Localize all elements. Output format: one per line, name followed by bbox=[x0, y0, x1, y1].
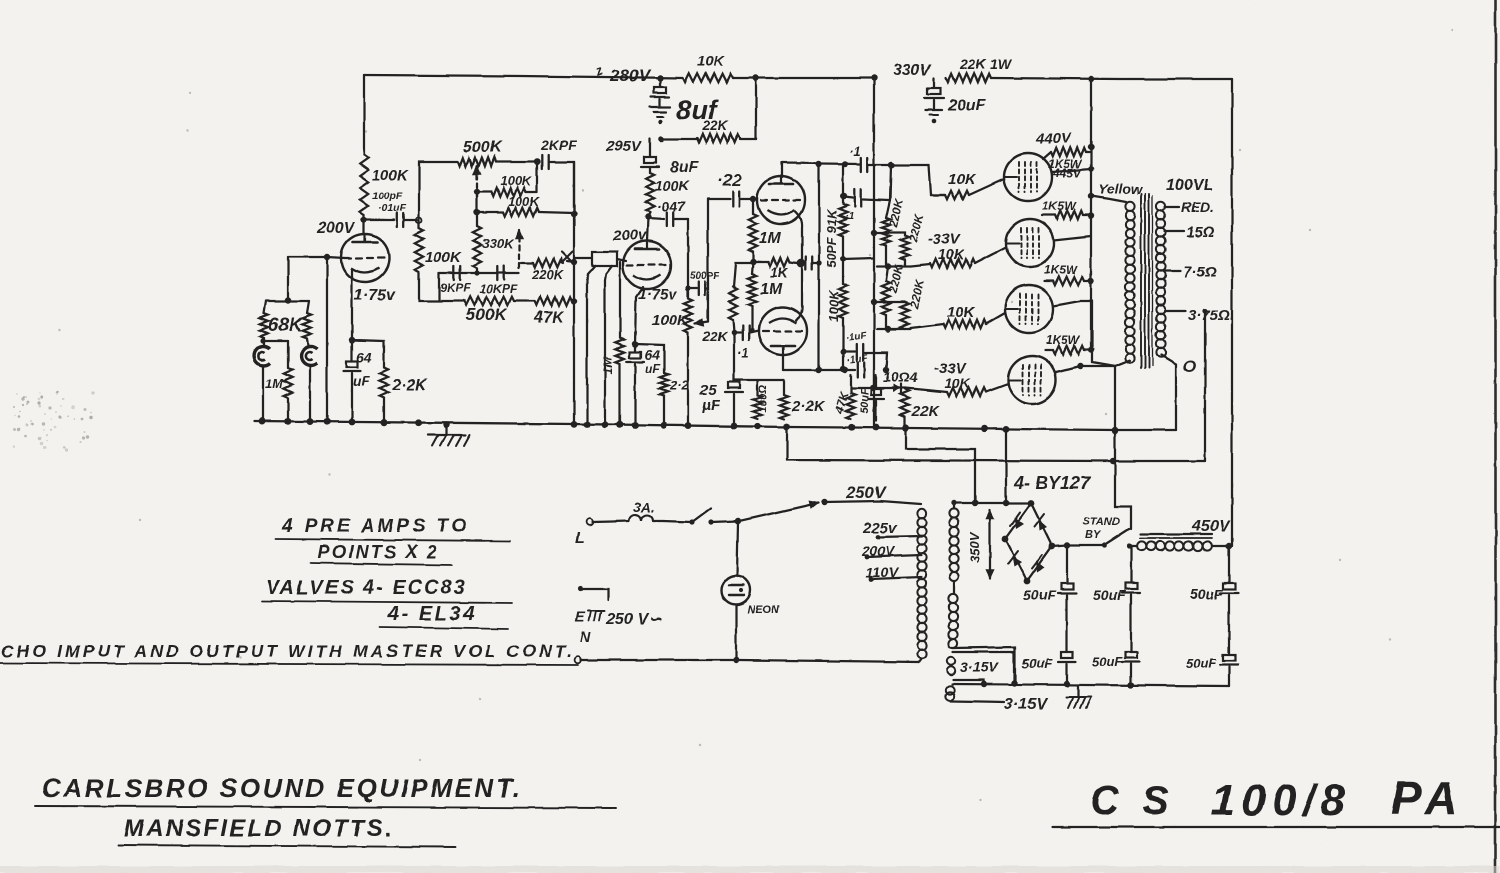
junction rail x384 bbox=[381, 419, 388, 426]
tap 110V bbox=[866, 564, 922, 581]
wire 250V to primary bbox=[824, 501, 921, 504]
wire splitter bottom line bbox=[783, 369, 855, 371]
title underline bbox=[1053, 826, 1500, 828]
junction rail x327 bbox=[324, 418, 331, 425]
pentode V6 bbox=[1008, 356, 1056, 404]
wire 500K lower line bbox=[419, 273, 535, 301]
note points x2 bbox=[311, 542, 452, 565]
wire bridge out bbox=[1052, 545, 1067, 546]
OPT secondary winding bbox=[1156, 202, 1165, 358]
label 450V bbox=[1191, 518, 1231, 535]
wire HT bottom out bbox=[953, 647, 1015, 682]
wire HT top link bbox=[953, 500, 1029, 506]
junction rail x352 bbox=[349, 419, 356, 426]
wire coupling to tone box bbox=[419, 162, 458, 220]
screen rail vertical bbox=[1088, 79, 1094, 353]
node bottom line a bbox=[816, 367, 822, 373]
junction rail x310 bbox=[307, 418, 314, 425]
scan edge line bbox=[1494, 0, 1497, 873]
label .1uF low1 bbox=[845, 330, 868, 344]
resistor 10K grid V3 bbox=[931, 171, 1004, 199]
capacitor 25uF bbox=[699, 333, 743, 424]
wire 220K AB junction bbox=[877, 263, 930, 269]
label 100VL bbox=[1166, 177, 1213, 194]
wire primary bottom to N bbox=[919, 658, 922, 662]
pentode V5 bbox=[1005, 285, 1053, 333]
HT winding lower bbox=[948, 594, 957, 648]
wire 68K top bar bbox=[266, 300, 309, 302]
resistor 330K bbox=[473, 212, 515, 273]
resistor 10K grid V6 bbox=[934, 360, 1008, 396]
node 2KPF bbox=[534, 159, 540, 165]
resistor 22K splitter grid bbox=[702, 263, 753, 344]
arrow 350V bbox=[967, 510, 994, 578]
title PA bbox=[1391, 772, 1464, 824]
resistor 1M splitter upper bbox=[749, 199, 782, 262]
wire 220K feed B bbox=[874, 233, 905, 236]
label 1.75V second bbox=[638, 286, 678, 303]
wire 9KPF box top bbox=[439, 270, 519, 300]
wire jack1 to 1M bbox=[260, 338, 288, 421]
junction rail x635 bbox=[632, 422, 639, 429]
resistor 47K bias bbox=[832, 375, 855, 419]
note valves ecc83 bbox=[262, 577, 512, 603]
wire cathode V1a bbox=[351, 270, 353, 340]
label 200V first bbox=[316, 220, 356, 237]
capacitor .1 coupling low1 bbox=[840, 344, 887, 370]
capacitor 20uF bbox=[925, 78, 987, 123]
label 220K A bbox=[886, 196, 906, 229]
wire X to rail bbox=[567, 261, 574, 262]
resistor 1M V1b gridleak bbox=[601, 262, 624, 424]
ground symbol main bbox=[428, 422, 470, 446]
right edge B+ vertical bbox=[1231, 79, 1233, 546]
wire cathode branch bbox=[352, 340, 384, 368]
fuse 3A bbox=[593, 499, 663, 522]
junction rail x906 bbox=[903, 424, 910, 431]
label 4-BY127 bbox=[1013, 473, 1091, 493]
box lead left bbox=[588, 266, 595, 274]
vertical rail 843 with 91K 100K bbox=[839, 164, 847, 372]
wire PSU drop A bbox=[787, 428, 1113, 461]
wire neutral bbox=[581, 660, 919, 662]
wire HT mid links bbox=[953, 581, 955, 594]
resistor 220K B bbox=[901, 236, 909, 266]
wire bias bar bbox=[734, 379, 784, 381]
resistor 1M input bbox=[265, 341, 292, 421]
wire tap 3.75 bbox=[1165, 307, 1234, 324]
wire plate V1a bbox=[363, 75, 365, 155]
label 280V bbox=[592, 62, 651, 85]
node screen V4 bbox=[1088, 213, 1094, 219]
label 500PF bbox=[690, 271, 720, 282]
resistor 1K5W V3 bbox=[1043, 148, 1091, 180]
node B+ right bbox=[1088, 76, 1094, 82]
terminal L bbox=[575, 519, 593, 547]
triode V2a bbox=[757, 176, 805, 224]
capacitor .1 coupling top bbox=[861, 158, 894, 172]
wire plate V2b bbox=[782, 355, 784, 370]
heater winding 2 bbox=[946, 686, 954, 700]
resistor 220K A bbox=[882, 218, 890, 266]
resistor 100R bbox=[753, 380, 769, 419]
wire grid V1a bbox=[288, 257, 345, 258]
node 440V bbox=[1088, 144, 1094, 150]
label 200V second bbox=[612, 227, 648, 244]
capacitor 50uF 2 bbox=[1093, 546, 1140, 652]
resistor 100K plate-load V1a bbox=[360, 155, 409, 215]
terminal N bbox=[575, 657, 582, 664]
wire PSU drop B bbox=[906, 428, 975, 503]
OPT primary winding bbox=[1125, 202, 1134, 362]
junction rail x985 bbox=[982, 425, 989, 432]
wire jack ground vertical bbox=[326, 257, 328, 420]
resistor 2.2K 1W bbox=[946, 56, 1012, 82]
resistor 10K grid V5 bbox=[943, 304, 1005, 328]
node bridge out bbox=[1064, 542, 1070, 548]
heater box 3.15V bbox=[953, 652, 1017, 687]
wire B+ drop bbox=[1112, 366, 1131, 529]
ground symbol PSU bbox=[1066, 686, 1091, 708]
wire switch to junction bbox=[711, 521, 738, 522]
switch mains bbox=[663, 508, 714, 525]
junction rail x734 bbox=[731, 423, 738, 430]
vertical rail 819 bbox=[818, 164, 820, 370]
wire cathode V2a bbox=[795, 211, 802, 261]
capacitor .1 coupling mid bbox=[841, 165, 891, 222]
pot wiper arrow upper bbox=[473, 166, 481, 197]
HT winding upper bbox=[949, 509, 958, 581]
wire 500K to 2KPF bbox=[496, 161, 538, 163]
resistor 100K screen bbox=[646, 167, 690, 212]
capacitor 100pF/.01uF bbox=[364, 190, 422, 227]
title CS bbox=[1090, 779, 1175, 823]
junction rail x587 bbox=[584, 421, 591, 428]
PSU ground rail bbox=[952, 681, 1229, 688]
title 100-8 bbox=[1211, 776, 1351, 825]
label 220K C bbox=[886, 262, 906, 295]
wire grid V2b bbox=[749, 328, 754, 333]
wire plate V3 to rail bbox=[1052, 166, 1094, 172]
label 330V bbox=[893, 62, 932, 79]
resistor 1K5W V5 bbox=[1044, 263, 1091, 285]
label .1uF low2 bbox=[846, 353, 869, 367]
resistor 1K tail bbox=[753, 258, 797, 280]
label N bbox=[580, 629, 592, 646]
label Yellow bbox=[1098, 181, 1143, 197]
resistor 2.2K V1b bbox=[660, 373, 690, 424]
capacitor 2KPF bbox=[540, 137, 577, 169]
resistor 500K upper bbox=[458, 139, 503, 166]
wire cathode branch V1b bbox=[635, 344, 664, 373]
label E earth 250V bbox=[575, 609, 662, 628]
wire plate V5 bbox=[1053, 301, 1092, 306]
wire wiper riser bbox=[707, 199, 709, 322]
wire tap step bbox=[1202, 308, 1207, 461]
voltage selector arrow bbox=[739, 501, 818, 521]
wire pot bottom bbox=[687, 333, 689, 424]
junction rail x787 bbox=[784, 423, 791, 430]
wire gridleak left bbox=[587, 274, 588, 424]
node 330V bbox=[871, 75, 877, 81]
tap 200V bbox=[861, 543, 922, 559]
wire tap 7.5 bbox=[1165, 264, 1217, 281]
wire 91K bottom link bbox=[840, 256, 874, 262]
resistor 10K grid V4 bbox=[928, 231, 1006, 267]
label 220K D bbox=[907, 277, 927, 310]
capacitor 8uF second bbox=[641, 157, 700, 176]
wire plate node to tube bbox=[363, 215, 365, 234]
resistor 100K coupling bbox=[415, 220, 462, 272]
resistor 1M splitter lower bbox=[748, 262, 783, 331]
wire splitter low caps bbox=[852, 363, 947, 393]
node grid V1a bbox=[324, 254, 330, 260]
node 1M junction bbox=[750, 259, 756, 265]
capacitor 10KPF bbox=[480, 266, 518, 296]
resistor 22K bias bbox=[901, 389, 941, 428]
label 220K B bbox=[906, 211, 926, 244]
junction rail x574 bbox=[571, 421, 578, 428]
capacitor .22 bbox=[708, 171, 752, 207]
wire NFB long bbox=[1110, 458, 1205, 464]
node top line b bbox=[842, 161, 848, 167]
capacitor 50uF bias bbox=[859, 375, 884, 421]
connector box interstage bbox=[574, 252, 626, 266]
wire plate V4 to rail bbox=[1054, 236, 1091, 240]
node choke out bbox=[1226, 543, 1232, 549]
capacitor 50uF 3 bbox=[1190, 546, 1238, 655]
switch standby bbox=[1067, 516, 1132, 549]
node wiper junction bbox=[474, 189, 480, 195]
junction rail x605 bbox=[602, 421, 609, 428]
wire primary bottom bbox=[1115, 360, 1130, 366]
wire NFB box bottom bbox=[1112, 427, 1176, 433]
junction rail x262 bbox=[259, 418, 266, 425]
jack input 2 bbox=[301, 338, 317, 419]
wire plate V6 bbox=[1056, 363, 1115, 372]
note echo bbox=[0, 641, 578, 665]
neon lamp bbox=[722, 521, 780, 660]
box lead right bbox=[606, 266, 612, 274]
junction rail x620 bbox=[617, 421, 624, 428]
resistor 68K right bbox=[303, 301, 311, 338]
wire PSU drop C bbox=[1005, 429, 1007, 503]
resistor 220K C bbox=[882, 266, 890, 329]
junction rail x419 bbox=[416, 419, 423, 426]
label 8uf bbox=[676, 95, 720, 125]
tap 225V bbox=[862, 520, 922, 539]
node 280V bbox=[657, 75, 663, 81]
junction rail x876 bbox=[873, 424, 880, 431]
node grid V2a bbox=[750, 196, 756, 202]
node plate V1b bbox=[645, 214, 651, 220]
vertical rail 874 bbox=[873, 78, 875, 429]
wire 047 drop bbox=[687, 219, 689, 282]
wire splitter top line bbox=[782, 163, 945, 195]
node 250V bbox=[821, 499, 827, 505]
title mansfield bbox=[118, 815, 456, 847]
label O tap bbox=[1183, 357, 1196, 376]
pentode V3 bbox=[1004, 153, 1052, 201]
wire cathode V1b bbox=[635, 287, 643, 344]
wire plate V1b bbox=[647, 212, 650, 241]
label 1.75V first bbox=[354, 287, 396, 304]
wire tap RED bbox=[1165, 199, 1214, 215]
capacitor 500pF bbox=[685, 282, 708, 295]
OPT core bbox=[1141, 194, 1153, 368]
label 295V bbox=[605, 138, 643, 155]
label 440V bbox=[1035, 130, 1073, 147]
resistor 22K bbox=[697, 117, 740, 142]
capacitor 64uF V1b bbox=[627, 344, 661, 424]
resistor 68K left bbox=[260, 301, 304, 338]
choke filter bbox=[1129, 534, 1228, 551]
resistor 47K bbox=[533, 297, 574, 326]
junction rail x757 bbox=[754, 423, 761, 430]
diode 10D4 bbox=[893, 384, 901, 392]
node rail874 crossing bbox=[871, 230, 877, 236]
title carlsbro bbox=[35, 773, 616, 808]
note valves el34 bbox=[380, 603, 508, 629]
resistor 10K top bbox=[683, 53, 733, 82]
node neutral neon bbox=[733, 657, 739, 663]
node neon bbox=[735, 518, 741, 524]
resistor 220K D bbox=[871, 299, 909, 329]
triode V1a bbox=[341, 234, 389, 282]
node 68K top bbox=[285, 297, 291, 303]
pot wiper arrow lower bbox=[515, 230, 523, 268]
wire 220K CD junction bbox=[877, 324, 943, 332]
wire cathode V2b bbox=[796, 265, 802, 321]
resistor 2.2K splitter bbox=[780, 380, 826, 419]
junction rail x288 bbox=[285, 418, 292, 425]
capacitor 50pF tail bbox=[801, 257, 822, 270]
wire top B+ rail bbox=[364, 75, 1232, 79]
bottom scan band bbox=[0, 866, 1500, 873]
pot wiper arrow volume bbox=[695, 319, 708, 327]
resistor 220K inject bbox=[521, 259, 565, 282]
capacitor 50uF 6 bbox=[1186, 655, 1238, 686]
label 10D4 bbox=[883, 369, 918, 385]
pentode V4 bbox=[1006, 219, 1054, 267]
resistor 1K5W V6 bbox=[1045, 333, 1091, 354]
label 100K rotated bbox=[826, 289, 841, 322]
wire yellow to OPT bbox=[1088, 193, 1126, 202]
node tail bbox=[797, 259, 806, 268]
ground below 8uF bbox=[650, 107, 670, 124]
triode V2b bbox=[759, 307, 807, 355]
capacitor 64uF V1a bbox=[344, 340, 372, 421]
node bottom line b bbox=[842, 367, 848, 373]
label .1 top bbox=[849, 144, 861, 159]
jack input 1 bbox=[254, 338, 270, 366]
capacitor .1 splitter grid bbox=[734, 326, 759, 360]
wire 295V node bbox=[650, 136, 664, 157]
wire HT top bbox=[951, 500, 956, 509]
wire plate V2a bbox=[781, 163, 783, 177]
capacitor 50uF 4 bbox=[1022, 652, 1076, 684]
terminal E bbox=[578, 586, 608, 600]
capacitor 50uF 5 bbox=[1092, 652, 1140, 684]
capacitor .047 bbox=[648, 198, 688, 226]
wire V5 plate drop bbox=[1092, 301, 1115, 366]
node cathode V1a bbox=[349, 337, 355, 343]
node plate V1a bbox=[361, 217, 367, 223]
wire 2KPF to right rail bbox=[549, 162, 574, 214]
wire grid drop bbox=[287, 257, 289, 300]
resistor 100K mid-b bbox=[474, 192, 577, 217]
wire secondary zero bbox=[1161, 355, 1176, 430]
capacitor 8uF first bbox=[651, 78, 669, 106]
triode V1b bbox=[623, 241, 671, 289]
bridge rectifier 4-BY127 bbox=[1002, 500, 1056, 585]
heater winding 1 bbox=[947, 657, 955, 675]
resistor 500K lower pot bbox=[464, 297, 514, 324]
label 50PF 91K rotated bbox=[824, 208, 839, 268]
junction rail x664 bbox=[661, 422, 668, 429]
mains transformer primary bbox=[917, 509, 926, 658]
wire right rail vertical bbox=[571, 162, 577, 421]
wire heater 2 bbox=[951, 696, 1048, 713]
resistor 1K5W V4 bbox=[1042, 199, 1091, 219]
ground rail main bbox=[255, 421, 1115, 430]
wire tap 15 bbox=[1165, 224, 1215, 241]
node top line a bbox=[816, 161, 822, 167]
junction rail x852 bbox=[849, 424, 856, 431]
wire gridleak mid bbox=[605, 274, 606, 424]
resistor 2.2K V1a bbox=[380, 368, 428, 421]
junction rail x1006 bbox=[1003, 425, 1010, 432]
resistor 100K volume pot bbox=[652, 282, 692, 333]
capacitor 9KPF bbox=[440, 266, 471, 295]
resistor 100K mid-a bbox=[477, 162, 537, 196]
junction rail x688 bbox=[685, 422, 692, 429]
label 250V bbox=[845, 483, 887, 502]
node cathode V1b bbox=[632, 341, 638, 347]
point X inject bbox=[562, 252, 573, 263]
node top-right of 10K bbox=[753, 75, 759, 81]
wire 22K branch bbox=[661, 78, 756, 139]
capacitor 50uF 1 bbox=[1023, 545, 1076, 652]
note 4 preamps bbox=[276, 516, 510, 541]
node screen V5 bbox=[1088, 278, 1094, 284]
